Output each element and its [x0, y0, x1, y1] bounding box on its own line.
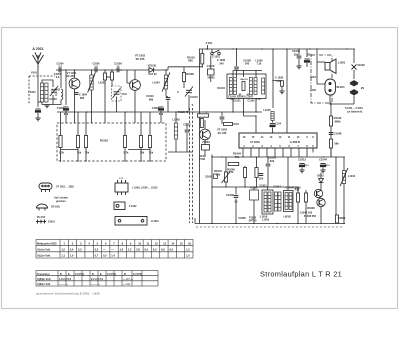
- capacitor C1651: [259, 174, 264, 176]
- resistor R1005: [110, 72, 113, 80]
- node mid 126: [125, 111, 126, 112]
- svg-text:VT 1001 ... 1003: VT 1001 ... 1003: [56, 186, 74, 189]
- node s2 c: [120, 69, 121, 70]
- wire L1003 drop: [60, 70, 62, 88]
- svg-text:Z1003: Z1003: [202, 140, 210, 144]
- wire box drop 3: [124, 123, 126, 136]
- wire C1036 up: [236, 48, 238, 66]
- svg-text:1,8 2,2 8,2: 1,8 2,2 8,2: [59, 277, 72, 281]
- node VT1003 base: [206, 111, 207, 112]
- transistor VT1605: [317, 198, 325, 206]
- svg-text:0,7: 0,7: [95, 254, 99, 258]
- wire U1015 up: [253, 187, 255, 190]
- wire R1605a dn: [244, 178, 246, 188]
- wire VT1001 emitter: [74, 89, 76, 123]
- svg-text:9V: 9V: [361, 86, 364, 90]
- svg-text:1002: 1002: [310, 88, 316, 92]
- resistor R1012: [329, 116, 332, 126]
- transistor voltage table: [36, 271, 158, 287]
- wire C1035 up: [306, 49, 308, 57]
- wire R1601 up: [225, 157, 227, 172]
- node box bottom 4: [140, 160, 141, 161]
- svg-text:E: E: [68, 272, 70, 276]
- ground input: [35, 118, 40, 121]
- wire U1018 up: [287, 157, 289, 191]
- node mr 245: [244, 186, 245, 187]
- wire batt-bus link: [331, 103, 354, 105]
- wire box drop 0: [60, 123, 62, 136]
- svg-text:H 1021: H 1021: [151, 220, 159, 223]
- node mid 161: [160, 111, 161, 112]
- package drawing Z1022: [114, 202, 125, 210]
- wire R1611 up: [297, 187, 299, 193]
- node osc a: [151, 69, 152, 70]
- svg-text:zur Batterie kl.: zur Batterie kl.: [347, 111, 363, 114]
- wire box res down 1: [77, 148, 79, 162]
- svg-text:R1043 C1047: R1043 C1047: [237, 95, 254, 99]
- transformer U1017 box: [262, 190, 273, 214]
- wire R1008 up: [183, 67, 185, 73]
- wire IC pin 3: [258, 148, 260, 153]
- resistor R1610: [304, 193, 307, 202]
- ground C1044: [320, 170, 325, 173]
- output capsule BL204: [325, 79, 336, 95]
- electrolytic C1047: [270, 124, 275, 127]
- node br 344: [343, 223, 344, 224]
- wire VT1002 base: [127, 82, 130, 84]
- wire R1605a up: [244, 166, 246, 168]
- wire battery down: [353, 96, 355, 105]
- svg-text:22k: 22k: [270, 159, 275, 163]
- node box bottom 1: [77, 160, 78, 161]
- wire C1036 down: [236, 70, 238, 77]
- node r157 268: [267, 156, 268, 157]
- wire R1601 dn: [225, 182, 227, 187]
- ground C1034: [296, 66, 301, 69]
- wire C1044 dn: [322, 168, 324, 171]
- wire R1016 top stub: [201, 49, 203, 54]
- transformer U1018 box: [284, 191, 294, 212]
- wire C1619 dn: [267, 167, 269, 187]
- coil L1001 secondary: [45, 83, 48, 102]
- node RF L1003: [60, 69, 61, 70]
- node r157 302: [301, 156, 302, 157]
- svg-text:R1609: R1609: [307, 206, 315, 210]
- svg-text:1,0: 1,0: [70, 254, 74, 258]
- wire speaker feed: [317, 61, 325, 63]
- wire L1005 down: [175, 139, 177, 152]
- svg-text:Stromlaufplan L T R 21: Stromlaufplan L T R 21: [260, 270, 342, 279]
- wire 125 drop: [124, 112, 126, 123]
- svg-text:VI 1001: VI 1001: [250, 140, 260, 144]
- wire C1016 gnd: [167, 101, 169, 113]
- wire box drop 5: [149, 123, 151, 136]
- switch S1002: [352, 65, 357, 70]
- IC VI1001 A283D: [239, 133, 317, 148]
- svg-text:Meßpunkt A283: Meßpunkt A283: [37, 241, 57, 245]
- svg-text:U(L)in Volt: U(L)in Volt: [37, 254, 50, 258]
- svg-text:S 1001 ... 3 1004: S 1001 ... 3 1004: [345, 107, 363, 110]
- wire R1610 dn: [305, 202, 307, 224]
- coil L1018 mid: [275, 192, 278, 211]
- diode VD1001: [149, 68, 154, 73]
- resistor R1016: [201, 53, 204, 64]
- svg-text:SAY 30: SAY 30: [148, 73, 157, 76]
- svg-text:C (VT3): C (VT3): [133, 272, 142, 276]
- svg-text:C1102: C1102: [247, 100, 255, 103]
- node mr 226: [225, 186, 226, 187]
- svg-text:— — —: — — —: [59, 283, 69, 286]
- resistor R small right: [281, 81, 284, 87]
- wire pin drop 275: [274, 153, 276, 158]
- voltage table A283: [36, 240, 193, 259]
- wire dashed input boundary: [29, 75, 55, 77]
- wire switch to battery: [353, 70, 355, 79]
- trimmer capacitor C1002: [50, 86, 58, 96]
- svg-text:— 1,2: — 1,2: [123, 282, 130, 286]
- wire IC pin 5: [274, 148, 276, 153]
- wire 86 drop2: [85, 112, 87, 123]
- node box bottom 3: [124, 160, 125, 161]
- ground antenna stage: [44, 105, 49, 108]
- svg-text:L 1003: L 1003: [52, 88, 60, 92]
- wire Z1021 drop: [211, 49, 213, 52]
- transistor VT1003: [200, 129, 211, 140]
- wire pin drop 267: [266, 153, 268, 158]
- wire VT1002 base drop: [126, 70, 128, 83]
- wire box pair link left: [61, 149, 79, 151]
- wire can down 243: [243, 99, 245, 113]
- svg-text:10k: 10k: [216, 172, 221, 176]
- wire L1002 top: [91, 70, 93, 75]
- wire IC pin 6: [282, 148, 284, 153]
- svg-text:6,8: 6,8: [161, 247, 165, 251]
- wire IC pin 9: [306, 148, 308, 153]
- wire pin drop 299: [298, 153, 300, 158]
- resistor R1605b: [255, 168, 258, 178]
- resistor R1009 right: [336, 215, 339, 223]
- svg-text:680k: 680k: [335, 119, 341, 123]
- coil U1017 secondary: [268, 192, 271, 212]
- trimmer capacitor C1051: [113, 88, 121, 98]
- wire bus drop 233: [232, 71, 234, 78]
- wire bottom left drop: [194, 218, 196, 224]
- electrolytic C1805: [158, 107, 163, 110]
- electrolytic C1001 input: [35, 109, 40, 112]
- coil U1004 primary: [229, 78, 232, 95]
- filter box U1015: [250, 190, 259, 200]
- node rail 310: [309, 48, 310, 49]
- trimmer capacitor C1015: [185, 87, 193, 97]
- wire VT1001 base: [74, 70, 76, 78]
- pot arrow R1601: [222, 171, 231, 183]
- svg-text:22n: 22n: [307, 53, 312, 57]
- svg-text:1,0: 1,0: [186, 254, 190, 258]
- wire L1045-C1047: [272, 121, 274, 123]
- node br 212: [211, 223, 212, 224]
- wire R1008 down: [183, 82, 185, 89]
- wire C1003 down: [65, 111, 67, 123]
- svg-text:A 283 D: A 283 D: [290, 140, 300, 144]
- coil U1004 secondary: [234, 78, 237, 95]
- svg-text:L1001: L1001: [338, 61, 346, 65]
- coil IF inner right: [262, 78, 265, 94]
- wire L1005 bottom rail: [168, 151, 192, 153]
- wire R1016 bottom stub: [201, 64, 203, 67]
- battery GB1001 9V: [350, 81, 358, 95]
- dashed alignment box R network: [57, 123, 166, 161]
- node capsule link: [329, 103, 330, 104]
- wire C1047 dn: [272, 128, 274, 134]
- node r157 336: [335, 156, 336, 157]
- resistor R1605a: [243, 168, 246, 178]
- node br 277: [276, 223, 277, 224]
- svg-text:R1009: R1009: [338, 216, 346, 220]
- resistor R1023 in box: [84, 136, 87, 148]
- svg-text:S1601: S1601: [205, 175, 213, 179]
- wire C1602 dn: [235, 199, 237, 224]
- electrolytic C1613: [299, 164, 304, 167]
- capacitor C1619: [266, 164, 271, 166]
- node rail 207: [206, 48, 207, 49]
- coil U1014 primary: [250, 78, 253, 95]
- wire antenna to coil: [37, 83, 39, 102]
- wire R1610 up: [305, 190, 307, 193]
- wire bus drop 243: [243, 71, 245, 78]
- svg-text:22n: 22n: [294, 52, 299, 56]
- wire box res down 4: [140, 148, 142, 162]
- wire R1062 dn: [330, 148, 332, 157]
- svg-text:S: S: [192, 103, 194, 107]
- wire battery top: [353, 49, 355, 63]
- svg-text:Transistor: Transistor: [37, 272, 50, 276]
- resistor R1025 in box: [139, 136, 142, 148]
- svg-text:1,2k: 1,2k: [59, 151, 65, 155]
- wire can down 256: [255, 99, 257, 113]
- dashed section divider b: [192, 108, 194, 223]
- svg-text:R1081: R1081: [100, 139, 108, 143]
- wire C1001 down: [37, 113, 39, 118]
- wire C1213 dn: [210, 75, 212, 82]
- capacitor C1042: [220, 117, 225, 119]
- svg-text:Y001: Y001: [31, 71, 38, 75]
- wire Z1003 to rail: [211, 155, 213, 158]
- electrolytic C1003: [63, 107, 68, 110]
- wire L1005 top: [175, 112, 177, 123]
- node R1016 bottom: [202, 66, 203, 67]
- svg-text:R16: R16: [295, 188, 300, 192]
- resistor R1026 in box: [148, 136, 151, 148]
- svg-text:gesehen: gesehen: [56, 200, 66, 203]
- svg-text:— — —: — — —: [91, 283, 101, 286]
- wire L1004 top: [165, 70, 167, 75]
- wire capsule down: [329, 95, 331, 104]
- svg-text:(L)+: (L)+: [304, 163, 309, 167]
- transistor VT1001: [69, 78, 80, 89]
- node rail 233: [232, 48, 233, 49]
- svg-text:V1002: V1002: [357, 63, 365, 67]
- svg-text:B: B: [92, 272, 94, 276]
- wire IC pin 8: [298, 148, 300, 153]
- wire 243-256 link: [244, 115, 257, 117]
- capacitor C1009: [117, 68, 119, 73]
- wire pin drop 283: [282, 153, 284, 158]
- electrolytic C1035: [304, 59, 309, 62]
- svg-text:SPT20: SPT20: [249, 219, 257, 223]
- node s2 b: [111, 69, 112, 70]
- wire link 168 66.8-70: [167, 67, 169, 70]
- svg-text:C1021: C1021: [233, 100, 241, 103]
- svg-text:A 2021: A 2021: [32, 47, 43, 51]
- svg-text:Z 1022: Z 1022: [129, 205, 137, 208]
- svg-text:VD 100i: VD 100i: [51, 206, 60, 209]
- transistor VT1604: [314, 189, 322, 197]
- svg-text:U(B)in Volt: U(B)in Volt: [37, 277, 51, 281]
- wire U1015 dn: [253, 200, 255, 224]
- wire right bus 331: [330, 104, 332, 157]
- wire VT1002 emitter: [134, 90, 136, 123]
- node rail 299: [298, 48, 299, 49]
- wire pin1 drop: [242, 153, 244, 158]
- wire AF mid rail 187: [212, 186, 298, 188]
- wire bus drop 256: [255, 71, 257, 78]
- wire speaker feed2: [317, 62, 325, 84]
- svg-text:1,2: 1,2: [186, 247, 190, 251]
- svg-text:1,6: 1,6: [120, 247, 124, 251]
- svg-text:1,2: 1,2: [128, 247, 132, 251]
- svg-text:L 1006, L1026 ... L1031: L 1006, L1026 ... L1031: [132, 187, 158, 190]
- dash-dot speaker box: [311, 55, 332, 103]
- capacitor C1004: [59, 68, 61, 73]
- wire speaker from rail: [316, 49, 318, 62]
- svg-text:220: 220: [259, 177, 264, 181]
- svg-text:(L)+: (L)+: [325, 163, 330, 167]
- wire R1044 link: [233, 123, 240, 125]
- svg-text:C1613: C1613: [298, 158, 306, 162]
- svg-text:56242: 56242: [207, 76, 215, 80]
- svg-text:680: 680: [149, 97, 154, 101]
- wire C1051 down: [116, 97, 118, 113]
- node box bottom 2: [85, 160, 86, 161]
- wire C1042 dn: [221, 120, 223, 124]
- svg-text:— 0,7 —: — 0,7 —: [123, 277, 134, 281]
- resistor R1044: [224, 123, 233, 126]
- svg-text:1,1: 1,1: [61, 254, 65, 258]
- svg-text:C104: C104: [275, 122, 282, 126]
- wire ant-coil bottom: [38, 101, 42, 103]
- wire pin drop 291: [290, 153, 292, 158]
- resistor R1021 in box: [59, 136, 62, 148]
- node RF a: [65, 69, 66, 70]
- wire RF rail: [56, 69, 168, 71]
- node box bottom 5: [149, 160, 150, 161]
- wire IC pin 1: [242, 148, 244, 153]
- wire left IF vertical: [199, 49, 201, 224]
- resistor R1024 in box: [123, 136, 126, 148]
- node rail 287: [286, 48, 287, 49]
- node mid 176: [175, 111, 176, 112]
- switch box S1601: [214, 174, 218, 179]
- svg-text:SF 235: SF 235: [136, 57, 145, 61]
- node mr 256: [256, 186, 257, 187]
- resistor R1062: [329, 139, 332, 148]
- wire L1001 top to C1002: [42, 80, 53, 87]
- coil U1017 primary: [264, 192, 267, 212]
- wire pin2 drop: [250, 153, 252, 158]
- svg-text:R1028 78: R1028 78: [178, 111, 189, 114]
- node bus 236: [236, 70, 237, 71]
- capacitor C1036: [234, 67, 239, 69]
- wire pin drop 307: [306, 153, 308, 158]
- coil L1003 spring: [61, 89, 63, 100]
- wire C1619 up: [267, 157, 269, 163]
- node RF c: [91, 69, 92, 70]
- capacitor C1017: [185, 130, 190, 132]
- node mid 87: [86, 111, 87, 112]
- coil L1001 primary: [40, 83, 43, 102]
- node batt link: [330, 103, 331, 104]
- svg-text:4,7k: 4,7k: [255, 97, 261, 101]
- wire dashed under rail: [196, 226, 344, 228]
- wire IC pin 4: [266, 148, 268, 153]
- wire C1042 drop: [221, 112, 223, 116]
- coil L1004 oscillator: [162, 73, 170, 92]
- wire antenna 2 stub: [207, 45, 209, 49]
- svg-text:B: B: [60, 272, 62, 276]
- svg-text:6,0: 6,0: [153, 247, 157, 251]
- node rail 262: [261, 48, 262, 49]
- svg-text:VD1001: VD1001: [148, 65, 157, 68]
- node bus 256: [255, 70, 256, 71]
- wire drop 112: [111, 70, 113, 72]
- package drawing VD diode: [37, 204, 48, 211]
- node osc b: [165, 69, 166, 70]
- transistor VT1002: [130, 80, 141, 91]
- node r157 212: [211, 156, 212, 157]
- IF transformer block U1004/U1014 box: [227, 74, 266, 99]
- svg-text:C1015: C1015: [190, 95, 198, 99]
- svg-text:U(E)in Volt: U(E)in Volt: [37, 282, 50, 286]
- node br 298: [297, 223, 298, 224]
- svg-text:MHzCfG: MHzCfG: [240, 79, 248, 81]
- wire IC pin 2: [250, 148, 252, 153]
- svg-text:240: 240: [219, 61, 224, 65]
- node mr 268: [267, 186, 268, 187]
- wire can down 233: [232, 99, 234, 113]
- package drawing DIP L1006: [115, 180, 128, 195]
- svg-text:LW18: LW18: [284, 215, 291, 219]
- wire box res down 0: [60, 148, 62, 162]
- wire bus 336 dn: [335, 157, 337, 224]
- wire R1611 dn: [297, 202, 299, 224]
- svg-text:10k: 10k: [77, 151, 82, 155]
- resistor R1006: [103, 73, 106, 80]
- wire 78 drop2: [77, 112, 79, 123]
- node r157 256: [255, 156, 256, 157]
- svg-text:2,8: 2,8: [136, 247, 140, 251]
- wire IF top bus: [233, 70, 262, 72]
- wire 243 dn: [243, 112, 245, 116]
- coil U1018 primary: [285, 193, 288, 210]
- wire antenna down: [37, 70, 39, 83]
- dashed tuning box C1051: [112, 86, 122, 101]
- coil L1005: [174, 123, 177, 139]
- wire box drop 1: [77, 123, 79, 136]
- node 273 rail: [272, 48, 273, 49]
- coil U1014 secondary: [254, 78, 257, 95]
- svg-text:1 2 3: 1 2 3: [119, 178, 123, 180]
- wire VT1003 down: [204, 140, 206, 145]
